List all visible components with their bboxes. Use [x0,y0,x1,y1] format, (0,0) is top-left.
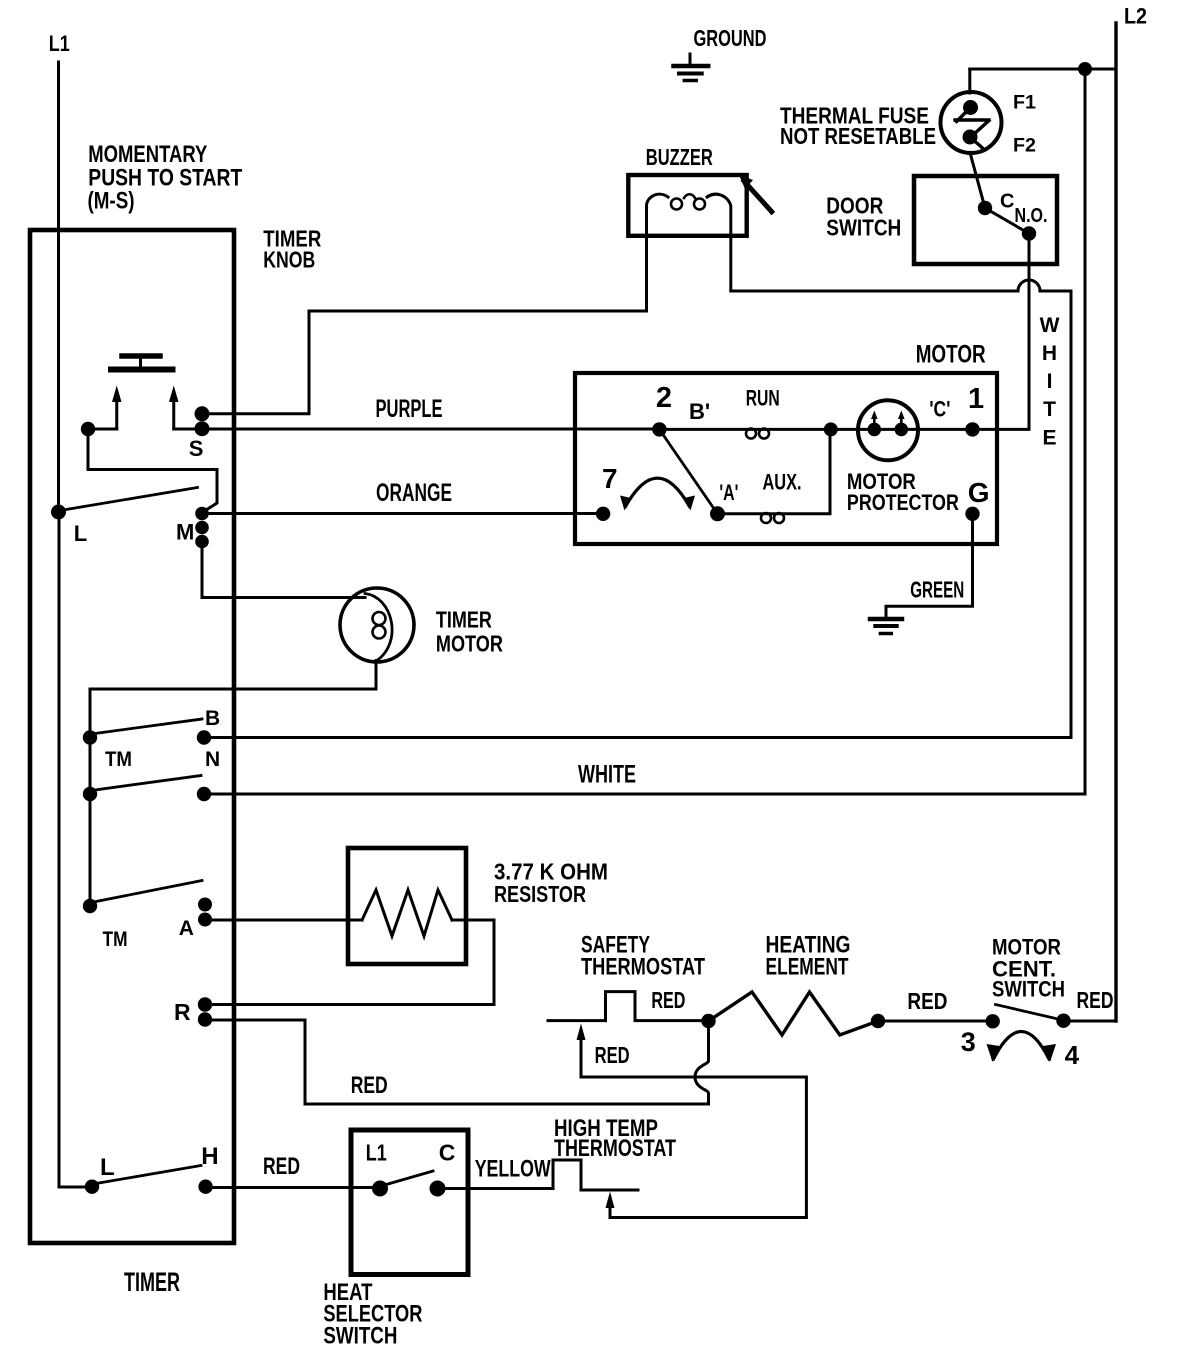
wire: heating element to cent switch 3 [878,1020,993,1023]
svg-text:L: L [100,1154,115,1181]
svg-text:MOTOR: MOTOR [916,341,986,369]
svg-text:RESISTOR: RESISTOR [494,881,586,907]
svg-text:ELEMENT: ELEMENT [766,954,849,981]
label MOMENTARY PUSH TO START (M-S) [88,141,243,215]
contact A terminals [198,898,212,912]
wire: left bus L node to bottom contact L [59,512,92,1187]
svg-text:C: C [439,1140,456,1166]
svg-text:RED: RED [595,1042,630,1068]
wire: door switch N.O. down to motor terminal 1 [973,234,1030,430]
svg-text:C: C [1000,191,1014,213]
svg-text:TIMER: TIMER [436,607,492,633]
svg-text:RED: RED [1077,987,1114,1013]
svg-text:SWITCH: SWITCH [992,977,1065,1002]
door switch [826,176,1057,264]
timer blade TM to A [91,881,202,903]
timer blade TM to B [91,719,202,734]
svg-text:PURPLE: PURPLE [376,395,443,423]
wire: junction down to contact N (white bus) [1084,69,1087,794]
svg-text:G: G [968,477,990,508]
svg-text:L: L [74,521,87,546]
wire YELLOW: heat selector C to high temp thermostat [438,1187,554,1190]
wire WHITE: contact N to junction branch [204,793,1085,796]
svg-text:GREEN: GREEN [910,577,964,603]
svg-text:RED: RED [907,988,947,1014]
svg-text:RED: RED [651,987,685,1013]
ground (motor chassis) [870,619,902,634]
svg-text:SWITCH: SWITCH [826,215,901,241]
wire: contact A to resistor [205,919,362,922]
wire: thermal fuse to door switch contact C [970,153,985,209]
svg-text:N.O.: N.O. [1015,205,1048,227]
svg-text:S: S [189,436,204,461]
wire RED: contact H to heat selector L1 [206,1186,380,1189]
svg-text:(M-S): (M-S) [88,188,135,215]
svg-text:SWITCH: SWITCH [323,1323,397,1350]
power line L2 [1116,4,1147,1022]
svg-text:NOT RESETABLE: NOT RESETABLE [780,123,936,149]
svg-text:WHITE: WHITE [578,761,636,789]
heating element [709,932,948,1036]
svg-text:L2: L2 [1124,4,1147,29]
svg-text:B: B [205,707,220,730]
timer blade TM to N [91,776,201,791]
svg-text:L1: L1 [366,1140,387,1166]
door switch contact C [978,201,992,215]
motor rotor blade 2 to 'A' [659,429,717,513]
motor centrifugal switch [961,935,1080,1071]
svg-text:TIMER: TIMER [124,1267,180,1297]
svg-text:M: M [176,520,194,545]
node: junction of L2 feed and white branch [1078,62,1092,76]
buzzer [628,144,771,236]
timer blade L to M [60,488,198,511]
svg-text:AUX.: AUX. [763,470,802,495]
svg-text:2: 2 [656,382,672,414]
contact S terminals [195,406,210,421]
motor rotor curved arrow [620,478,695,510]
svg-text:PROTECTOR: PROTECTOR [847,490,959,515]
push button left terminal [81,422,95,436]
contact M terminals [195,507,209,521]
svg-text:YELLOW: YELLOW [475,1156,551,1183]
svg-text:H: H [201,1143,218,1170]
heat selector switch [323,1130,468,1350]
motor box [575,341,997,545]
svg-text:E: E [1042,427,1056,450]
svg-text:A: A [179,917,194,940]
buzzer striker arm [744,181,772,212]
svg-text:'C': 'C' [929,397,950,422]
wire: heating junction down with hop over thermostat link [695,1021,709,1104]
svg-text:L1: L1 [49,31,70,56]
contact TM third [83,899,97,913]
timer motor [340,588,503,662]
contact TM lower [83,787,97,801]
motor run winding [659,386,972,439]
svg-text:N: N [205,748,220,771]
wire PURPLE: timer S to motor terminal 2 [202,428,659,431]
wire: thermal fuse top to L2 [970,68,1116,71]
svg-text:7: 7 [602,463,618,494]
power line L1 [49,31,70,512]
svg-text:T: T [1043,398,1056,421]
wire RED: contact R to heating element junction [205,1020,709,1104]
label WHITE (vertical, door switch wire) [1040,314,1060,450]
label TIMER KNOB [263,226,321,273]
wire: resistor return loop to contact R [205,920,494,1005]
svg-text:F1: F1 [1013,93,1036,114]
node: run/aux junction [824,422,838,436]
timer blade L to H [93,1166,201,1185]
svg-text:RUN: RUN [746,386,780,411]
svg-text:BUZZER: BUZZER [646,144,713,170]
svg-text:R: R [174,999,191,1025]
safety thermostat [548,932,806,1218]
svg-text:'A': 'A' [719,480,738,505]
high temp thermostat [553,1115,676,1218]
svg-text:3: 3 [961,1027,976,1057]
wire GREEN: terminal G to chassis ground [886,514,973,617]
svg-text:I: I [1047,370,1053,393]
thermal fuse F1 F2 [780,69,1036,157]
svg-text:THERMOSTAT: THERMOSTAT [554,1135,676,1162]
wire: buzzer right lead, hop over door-switch wire, down to contact B [731,236,1071,738]
svg-text:KNOB: KNOB [263,247,315,273]
contact TM upper [83,730,97,744]
wire: push button left terminal down to contact M [88,429,217,512]
push button arrow contacts [88,386,202,430]
motor terminal 2 [652,422,666,436]
contact R terminals [198,997,212,1011]
node L on L1 bus [51,505,66,520]
svg-text:H: H [1042,342,1057,365]
motor terminal G [965,507,979,521]
motor contact 'A' [710,506,725,521]
door switch blade C to N.O. [985,208,1029,234]
svg-text:THERMOSTAT: THERMOSTAT [581,954,705,981]
contact B [197,730,211,744]
svg-text:W: W [1040,314,1060,337]
wire RED: cent switch 4 to L2 [1064,1020,1117,1023]
wire: contact M down to timer motor [202,542,365,598]
wire: TM bus [89,738,92,907]
ground (top) [674,25,767,81]
svg-text:TM: TM [105,748,132,771]
wire: contact B to buzzer branch [204,736,1071,739]
svg-text:RED: RED [263,1153,300,1180]
svg-text:ORANGE: ORANGE [376,479,452,507]
motor terminal 1 [965,422,979,436]
svg-text:GROUND: GROUND [694,25,767,51]
svg-text:4: 4 [1065,1040,1080,1070]
contact H [198,1180,212,1194]
motor terminal 7 [596,507,610,521]
svg-text:F2: F2 [1013,136,1036,157]
contact L (bottom) [85,1180,99,1194]
svg-text:1: 1 [968,383,984,415]
wire ORANGE: timer M to motor terminal 7 [202,512,603,515]
door switch contact N.O. [1022,226,1036,240]
push button (momentary) [111,356,173,370]
timer box [30,230,234,1297]
svg-text:RED: RED [351,1072,388,1099]
node: safety thermostat / heating element junction [701,1014,715,1028]
motor aux winding [718,429,831,523]
wire: timer motor return to contact TM [90,661,376,738]
buzzer coil [647,194,669,236]
svg-text:B': B' [689,399,710,424]
resistor 3.77 K OHM [348,848,608,964]
motor protector [847,400,959,515]
contact N [197,787,211,801]
node: heating element right end [871,1014,885,1028]
svg-text:MOTOR: MOTOR [436,631,503,657]
wire: timer S upper contact up and over to buzzer left lead [202,236,647,414]
svg-text:TM: TM [103,928,128,951]
